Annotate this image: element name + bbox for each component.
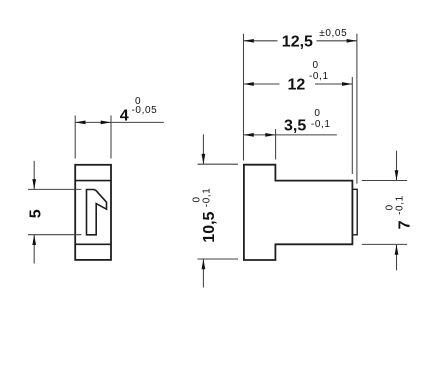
left view: upper step edge line — [75, 180, 111, 182]
right view: body outline — [244, 165, 353, 260]
dim 4: right arrow — [101, 121, 111, 125]
svg-text:-0,1: -0,1 — [395, 195, 406, 215]
dim 12: dimension line left segment — [244, 83, 280, 85]
svg-text:-0,1: -0,1 — [309, 71, 329, 82]
svg-text:12,5: 12,5 — [282, 33, 313, 50]
dim 4: dimension line — [75, 121, 164, 123]
dim 10.5: top extension line — [198, 163, 239, 165]
dim 12: left arrow — [244, 82, 254, 86]
dim 3.5: dimension line — [244, 134, 337, 136]
dim 5: upper arrow (down) — [32, 179, 36, 189]
dim 10.5: upper arrow (down) — [202, 154, 206, 164]
left view: body outline — [75, 165, 111, 260]
dim 12: right arrow — [342, 82, 352, 86]
dim 12: dimension line right segment — [315, 83, 352, 85]
dim 10.5: upper dimension line segment — [202, 134, 204, 164]
dim 3.5: right extension line — [275, 129, 277, 160]
dim 4: right extension line — [110, 116, 112, 159]
right view: rib — [352, 189, 357, 235]
dim 10.5: lower arrow (up) — [202, 259, 206, 269]
svg-text:0: 0 — [313, 60, 319, 71]
svg-text:7: 7 — [396, 220, 413, 229]
dim 5: bottom extension line — [28, 234, 81, 236]
left view: actuator flag shape — [87, 190, 107, 235]
dim 12.5: right arrow — [347, 39, 357, 43]
svg-text:-0,1: -0,1 — [201, 188, 212, 208]
dim 4: left extension line — [74, 116, 76, 159]
dim 12.5: dimension line right segment — [317, 40, 357, 42]
dim 3.5: left arrow — [244, 133, 254, 137]
dim 4: left arrow — [75, 121, 85, 125]
dim 12.5: left arrow — [244, 39, 254, 43]
svg-text:12: 12 — [288, 77, 306, 94]
left view: lower step edge line — [75, 243, 111, 245]
svg-text:5: 5 — [28, 209, 45, 218]
dim 7: lower arrow (up) — [395, 244, 399, 254]
dim 7: lower dimension line segment — [396, 244, 398, 270]
dim 5: lower dimension line segment — [33, 235, 35, 264]
svg-text:0: 0 — [314, 108, 320, 119]
svg-text:±0,05: ±0,05 — [319, 28, 347, 39]
dim 12.5: right extension line — [356, 34, 358, 184]
dim 7: upper dimension line segment — [396, 151, 398, 181]
svg-text:-0,05: -0,05 — [132, 105, 158, 116]
dim 12.5/12/3.5: shared left extension line — [243, 34, 245, 161]
dim 10.5: lower dimension line segment — [202, 259, 204, 288]
dim 12.5: dimension line left segment — [244, 40, 278, 42]
dim 7: top extension line — [362, 180, 407, 182]
dim 5: top extension line — [28, 188, 81, 190]
dim 10.5: bottom extension line — [198, 258, 239, 260]
svg-text:4: 4 — [120, 107, 129, 124]
svg-text:10,5: 10,5 — [201, 211, 218, 242]
dim 5: lower arrow (up) — [32, 235, 36, 245]
svg-text:-0,1: -0,1 — [311, 119, 331, 130]
dim 5: upper dimension line segment — [33, 161, 35, 190]
dim 7: bottom extension line — [362, 243, 407, 245]
dim 3.5: right arrow — [265, 133, 275, 137]
dim 7: upper arrow (down) — [395, 170, 399, 180]
dim 12: right extension line — [351, 77, 353, 174]
svg-text:3,5: 3,5 — [284, 118, 306, 135]
